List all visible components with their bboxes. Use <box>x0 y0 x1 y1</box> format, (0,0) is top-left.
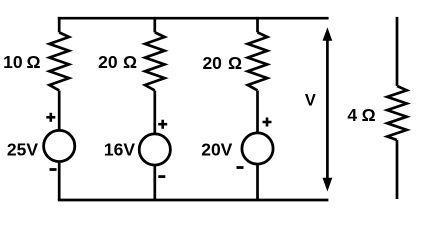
svg-text:20V: 20V <box>201 140 232 160</box>
wire branch3 middle <box>256 91 259 134</box>
wire branch2 top <box>153 17 156 32</box>
plus sign branch2 <box>158 120 167 129</box>
top wire <box>58 17 329 20</box>
svg-text:Ω: Ω <box>228 53 242 73</box>
resistor R4 zigzag <box>387 86 407 140</box>
plus sign branch1 <box>46 113 55 122</box>
svg-text:25V: 25V <box>7 140 38 160</box>
resistor R3 zigzag <box>248 32 268 90</box>
arrowhead top <box>323 27 333 40</box>
arrowhead bottom <box>323 178 333 192</box>
minus sign branch1 <box>50 168 57 171</box>
svg-text:4: 4 <box>347 105 357 125</box>
bottom wire <box>58 199 329 202</box>
wire 4ohm top <box>396 17 399 86</box>
wire branch2 bottom <box>153 165 156 200</box>
voltage source V1 circle <box>44 130 75 161</box>
resistor R1 zigzag <box>49 32 69 90</box>
voltage source V3 circle <box>242 133 273 164</box>
svg-text:20: 20 <box>202 53 222 73</box>
svg-text:Ω: Ω <box>123 52 137 72</box>
svg-text:16V: 16V <box>104 140 135 160</box>
voltage source V2 circle <box>139 134 170 165</box>
resistor R2 zigzag <box>145 32 165 90</box>
voltage arrow V line <box>326 38 329 180</box>
minus sign branch3 <box>237 166 244 169</box>
minus sign branch2 <box>158 175 165 178</box>
svg-text:Ω: Ω <box>362 105 376 125</box>
wire 4ohm bottom <box>396 140 399 199</box>
svg-text:Ω: Ω <box>26 52 40 72</box>
svg-text:20: 20 <box>98 52 118 72</box>
wire branch3 top <box>256 17 259 32</box>
wire branch2 middle <box>153 91 156 135</box>
wire branch1 bottom <box>58 162 61 200</box>
wire branch1 middle <box>58 91 61 132</box>
plus sign branch3 <box>263 118 272 127</box>
wire branch3 bottom <box>256 164 259 200</box>
svg-text:10: 10 <box>3 52 23 72</box>
svg-text:V: V <box>305 92 316 110</box>
wire branch1 top <box>58 17 61 32</box>
